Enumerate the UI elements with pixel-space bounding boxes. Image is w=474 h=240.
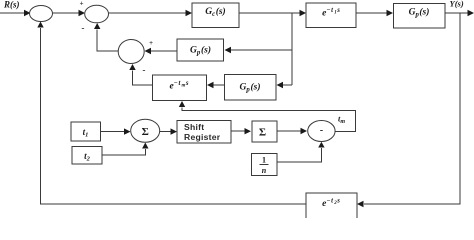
wire sigma block to comparator circle (277, 128, 307, 134)
wire S3 output to S2 bottom (94, 23, 118, 51)
svg-text:1: 1 (262, 156, 266, 165)
svg-text:Gc(s): Gc(s) (205, 6, 225, 18)
block shift register (177, 120, 231, 143)
svg-text:Σ: Σ (259, 127, 266, 139)
wire Gp(s) mid to S3 (145, 48, 178, 54)
wire sigma junction to shift register (160, 128, 177, 134)
block t1 (71, 122, 101, 141)
wire branch vertical from top line (291, 13, 293, 85)
svg-text:+: + (80, 0, 84, 8)
summing junction S2 (85, 5, 109, 23)
wire S2 to Gc(s) (109, 10, 193, 16)
wire branch to Gp(s) lower input (277, 82, 293, 88)
wire feedback from Y(s) branch down right side (357, 13, 460, 207)
block delay e^-t2s bottom feedback (306, 193, 357, 220)
wire t2 to sigma junction bottom (102, 143, 149, 156)
minus sign at S3 bottom input (143, 65, 146, 75)
svg-text:Σ: Σ (142, 126, 149, 138)
minus sign at S2 bottom input (82, 23, 85, 33)
wire 1/n to comparator bottom (277, 142, 325, 162)
summing junction comparator with minus (308, 121, 335, 142)
wire Gc(s) to delay e^-t1s (239, 10, 306, 16)
block t2 (72, 147, 102, 164)
svg-text:-: - (320, 125, 323, 136)
block 1/n (251, 153, 277, 175)
wire delay e^-t2s to summing junction S1 bottom (37, 22, 306, 205)
svg-text:Shift: Shift (184, 122, 204, 132)
plus sign at S3 right input (149, 39, 153, 47)
summing junction S3 (118, 40, 144, 64)
wire R(s) input to summing junction S1 (0, 10, 31, 16)
svg-text:Gp(s): Gp(s) (190, 45, 211, 57)
node R(s) input label (3, 0, 20, 10)
svg-text:Gp(s): Gp(s) (239, 82, 260, 94)
wire shift register to sigma block (231, 128, 251, 134)
summing junction sigma circle (131, 119, 160, 142)
svg-text:n: n (262, 166, 267, 175)
svg-text:Y(s): Y(s) (450, 0, 464, 8)
block Gp(s) lower (225, 74, 276, 100)
block Gp(s) plant top (393, 3, 445, 27)
summing junction S1 (30, 6, 53, 22)
block Gc(s) controller (192, 3, 239, 27)
wire t1 to sigma junction (101, 128, 131, 134)
wire delay e^-t1s to Gp(s) top (356, 10, 393, 16)
block delay e^-t1s (306, 3, 356, 28)
svg-text:Gp(s): Gp(s) (409, 6, 430, 18)
wire S1 to S2 (53, 10, 86, 16)
svg-text:Register: Register (184, 132, 221, 142)
block Gp(s) middle (177, 39, 224, 61)
node tm label (338, 114, 345, 126)
wire comparator output to delay e^-tms bottom (179, 101, 356, 132)
svg-text:R(s): R(s) (3, 0, 20, 10)
wire branch to Gp(s) middle input (225, 47, 293, 53)
wire Gp(s) lower to delay e^-tms (207, 82, 225, 88)
svg-text:+: + (149, 39, 153, 47)
block sigma accumulator (252, 121, 277, 142)
svg-text:-: - (143, 65, 146, 75)
svg-text:-: - (82, 23, 85, 33)
wire delay e^-tms to S3 bottom (129, 64, 152, 85)
plus sign at S2 left input (80, 0, 84, 8)
wire Gp(s) top to Y(s) output (445, 10, 474, 16)
block delay e^-tms (152, 75, 206, 100)
node Y(s) output label (450, 0, 464, 8)
